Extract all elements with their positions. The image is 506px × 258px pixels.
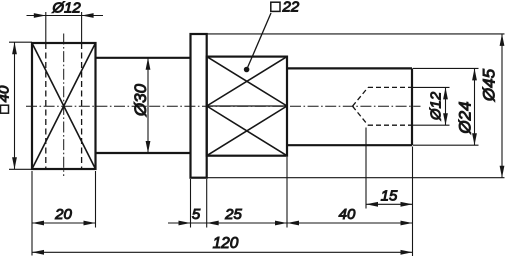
dimension line square40	[14, 42, 16, 169]
cylinder D30 top edge	[96, 57, 192, 59]
extension line hole D12 bottom	[413, 124, 450, 126]
square section upper flat diagonal 1	[207, 57, 287, 106]
dimension line 15	[366, 203, 413, 205]
hidden line: vertical hole left edge	[45, 43, 47, 169]
extension line D12 top right	[81, 12, 83, 43]
hidden line: vertical hole right edge	[81, 43, 83, 169]
extension line D45 bottom	[207, 177, 505, 179]
hidden line: drill cone top flank	[353, 87, 369, 106]
square section upper flat diagonal 2	[207, 57, 287, 106]
svg-text:40: 40	[0, 85, 13, 102]
cylinder D24 top edge	[287, 67, 412, 69]
dimension line hole D12	[445, 87, 447, 125]
arrow 120 right	[401, 250, 413, 255]
hidden line: drill cone bottom flank	[353, 106, 369, 125]
svg-text:Ø45: Ø45	[480, 68, 499, 102]
svg-text:40: 40	[339, 206, 356, 223]
extension line bottom right x412.5	[412, 147, 414, 257]
hidden line: axial hole D12 top	[368, 86, 412, 88]
centerline: square head vertical axis	[63, 34, 65, 177]
square section near-corner edge	[207, 105, 287, 107]
square section 22 outline	[207, 57, 287, 156]
svg-text:Ø24: Ø24	[456, 101, 475, 134]
svg-text:15: 15	[381, 188, 398, 205]
leader line square22	[247, 13, 271, 69]
centerline: main horizontal axis	[26, 105, 421, 107]
extension line square40 top	[9, 41, 32, 43]
svg-text:Ø12: Ø12	[428, 91, 445, 121]
square head block 40x40 outline	[32, 43, 96, 169]
hidden line: axial hole D12 bottom	[368, 124, 412, 126]
arrow D45 top	[500, 34, 505, 46]
arrow 25 left	[207, 221, 219, 226]
arrow 20 left	[32, 221, 44, 226]
arrow D30 bottom	[146, 141, 151, 153]
arrow hole D12 top	[443, 87, 448, 99]
cylinder D24 right end face	[411, 68, 413, 145]
extension line D45 top	[207, 33, 505, 35]
dimension line 20	[32, 222, 96, 224]
arrow square40 top	[12, 42, 17, 54]
extension line bottom x95.5	[95, 171, 97, 228]
arrow 25 right	[275, 221, 287, 226]
arrow 20 right	[84, 221, 96, 226]
extension line D12 top left	[45, 12, 47, 43]
svg-text:20: 20	[54, 206, 72, 223]
extension line D24 bottom	[413, 144, 479, 146]
square head flat-marking diagonal 2	[32, 43, 96, 169]
extension line bottom left x32	[31, 171, 33, 256]
square section lower flat diagonal 1	[207, 106, 287, 156]
arrow 5 left outside	[179, 221, 191, 226]
arrow 15 left	[366, 202, 378, 207]
flange D45 outline	[191, 34, 207, 178]
arrow square40 bottom	[12, 157, 17, 169]
extension line bottom x190.5	[190, 179, 192, 228]
dimension line 120	[32, 251, 413, 253]
svg-text:Ø12: Ø12	[51, 0, 81, 17]
dimension line D30	[147, 58, 149, 153]
square section lower flat diagonal 2	[207, 106, 287, 156]
leader dot square22	[244, 67, 250, 73]
dimension line D45	[501, 34, 503, 178]
svg-text:Ø30: Ø30	[131, 83, 150, 117]
cylinder D24 bottom edge	[287, 144, 412, 146]
svg-text:22: 22	[282, 0, 300, 16]
dimension line D24	[474, 68, 476, 145]
label square22 symbol	[271, 2, 280, 11]
svg-text:5: 5	[192, 206, 201, 223]
extension line depth 15	[365, 128, 367, 209]
arrow D30 top	[146, 58, 151, 70]
arrow D24 bottom	[472, 133, 477, 145]
dimension line D12 top	[27, 15, 104, 17]
extension line bottom x287	[286, 157, 288, 228]
cylinder D30 bottom edge	[96, 152, 192, 154]
arrow D24 top	[472, 68, 477, 80]
arrow D12 right	[82, 13, 94, 18]
dimension line 5 25 40	[168, 222, 413, 224]
svg-text:120: 120	[213, 235, 239, 252]
label square40	[0, 85, 13, 113]
arrow D12 left	[34, 13, 46, 18]
extension line D24 top	[413, 67, 479, 69]
extension line bottom x206.7	[206, 179, 208, 228]
arrow 40 left	[287, 221, 299, 226]
svg-text:25: 25	[224, 206, 242, 223]
extension line square40 bottom	[9, 168, 32, 170]
square head flat-marking diagonal 1	[32, 43, 96, 169]
arrow 40 right	[401, 221, 413, 226]
extension line hole D12 top	[413, 86, 450, 88]
arrow 15 right	[401, 202, 413, 207]
arrow D45 bottom	[500, 166, 505, 178]
arrow 120 left	[32, 250, 44, 255]
arrow hole D12 bottom	[443, 113, 448, 125]
